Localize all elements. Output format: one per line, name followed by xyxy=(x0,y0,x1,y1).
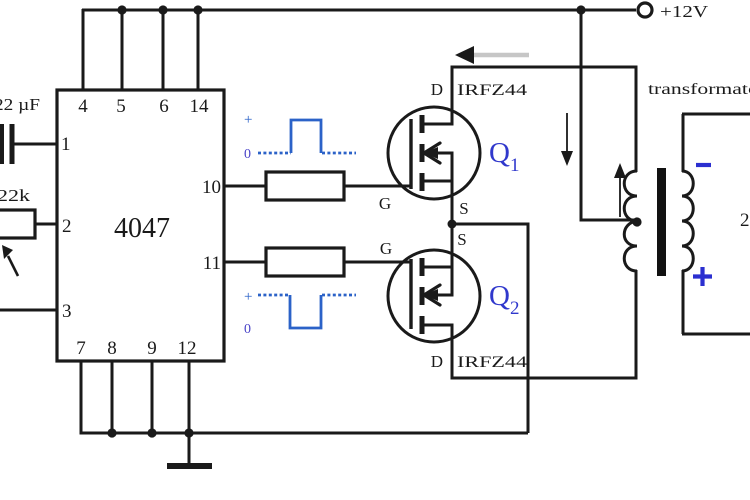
svg-text:3: 3 xyxy=(62,301,72,322)
svg-text:+: + xyxy=(244,112,252,128)
svg-text:0: 0 xyxy=(244,322,251,337)
wire pin 14 to rail xyxy=(197,10,200,90)
svg-text:4047: 4047 xyxy=(114,213,170,244)
wire ground bus xyxy=(81,432,528,434)
svg-text:4: 4 xyxy=(78,96,88,117)
wire pin 8 to ground bus xyxy=(111,361,114,433)
resistor R1 xyxy=(266,172,344,200)
wire pin 6 to rail xyxy=(162,10,165,90)
pin 1 label xyxy=(61,134,71,155)
wire R1 to gate Q1 xyxy=(344,185,411,188)
label + (waveform 1) xyxy=(244,112,252,128)
wire pin 10 to R1 xyxy=(224,185,266,188)
svg-text:11: 11 xyxy=(203,253,221,274)
pin 12 label xyxy=(178,338,197,359)
transistor Q1 IRFZ44 xyxy=(388,107,480,199)
label 0 (waveform 2) xyxy=(244,322,251,337)
svg-text:14: 14 xyxy=(190,96,210,117)
junction pin9/bus xyxy=(147,428,156,437)
label + (waveform 2) xyxy=(244,289,252,305)
label 0 (waveform 1) xyxy=(244,147,251,162)
waveform pulse high (pin 10) xyxy=(258,120,356,153)
label S (Q1) xyxy=(459,199,468,218)
wire pin 11 to R2 xyxy=(224,261,266,264)
svg-text:7: 7 xyxy=(76,338,86,359)
junction pin6/rail xyxy=(158,5,167,14)
svg-text:IRFZ44: IRFZ44 xyxy=(457,354,527,371)
label 4047 xyxy=(114,213,170,244)
junction pin5/rail xyxy=(117,5,126,14)
current arrow up (primary) xyxy=(614,163,626,217)
svg-text:S: S xyxy=(457,230,466,249)
label transformator xyxy=(648,81,750,98)
potentiometer arrow xyxy=(2,245,18,276)
transformer T1 primary winding xyxy=(624,171,637,271)
wire C1 to pin 1 xyxy=(14,143,57,146)
svg-text:2: 2 xyxy=(62,216,72,237)
label +12V xyxy=(660,2,709,21)
transistor Q2 IRFZ44 xyxy=(388,249,480,342)
label G (Q1) xyxy=(379,194,391,213)
wire R2 to gate Q2 xyxy=(344,261,411,264)
transformer T1 secondary winding xyxy=(682,114,693,334)
pin 2 label xyxy=(62,216,72,237)
wire pin 7 to ground bus xyxy=(80,361,83,433)
label IRFZ44 (Q2) xyxy=(457,354,527,371)
wire +12V to centre tap xyxy=(581,10,637,220)
svg-text:12: 12 xyxy=(178,338,197,359)
pin 5 label xyxy=(116,96,126,117)
wire pin 3 xyxy=(0,309,57,312)
resistor R2 xyxy=(266,248,344,276)
svg-text:9: 9 xyxy=(147,338,157,359)
pin 11 label xyxy=(203,253,221,274)
ground xyxy=(167,433,212,466)
svg-text:+: + xyxy=(244,289,252,305)
label G (Q2) xyxy=(380,239,392,258)
waveform pulse low (pin 11) xyxy=(258,295,356,328)
pin 8 label xyxy=(107,338,117,359)
svg-text:8: 8 xyxy=(107,338,117,359)
wire pin 12 to ground bus xyxy=(188,361,191,433)
wire pin 5 to rail xyxy=(121,10,124,90)
svg-text:6: 6 xyxy=(159,96,169,117)
wire pin 4 to rail xyxy=(82,9,85,90)
label IRFZ44 (Q1) xyxy=(457,82,527,99)
wire R3 to pin 2 xyxy=(35,223,57,226)
wire Q2 drain to transformer primary bottom xyxy=(452,270,636,378)
pin 4 label xyxy=(78,96,88,117)
label S (Q2) xyxy=(457,230,466,249)
svg-text:+12V: +12V xyxy=(660,2,709,21)
wire pin 9 to ground bus xyxy=(151,361,154,433)
pin 10 label xyxy=(202,177,221,198)
pin 6 label xyxy=(159,96,169,117)
terminal +12V xyxy=(638,3,652,17)
svg-text:S: S xyxy=(459,199,468,218)
svg-text:22 µF: 22 µF xyxy=(0,95,40,114)
junction centre tap xyxy=(632,217,641,226)
svg-text:10: 10 xyxy=(202,177,221,198)
svg-text:5: 5 xyxy=(116,96,126,117)
svg-text:1: 1 xyxy=(61,134,71,155)
pin 9 label xyxy=(147,338,157,359)
svg-text:IRFZ44: IRFZ44 xyxy=(457,82,527,99)
junction S node xyxy=(448,220,457,229)
wire Q2 source to S junction xyxy=(451,222,454,251)
svg-text:G: G xyxy=(380,239,392,258)
wire secondary top to load xyxy=(682,113,750,116)
svg-text:22k: 22k xyxy=(0,186,31,205)
junction pin8/bus xyxy=(107,428,116,437)
junction pin14/rail xyxy=(193,5,202,14)
junction +12V rail / centre-tap feed xyxy=(576,5,585,14)
label 22 uF xyxy=(0,95,40,114)
wire secondary bottom to load xyxy=(682,333,750,336)
pin 7 label xyxy=(76,338,86,359)
wire S node to ground bus xyxy=(452,224,528,433)
junction pin12/bus xyxy=(184,428,193,437)
label D (Q1) xyxy=(431,80,443,99)
wire Q1 source to S junction xyxy=(451,197,454,226)
current arrow (drain loop, pointing left) xyxy=(455,46,529,64)
resistor R3 22k xyxy=(0,210,35,238)
svg-text:220V: 220V xyxy=(740,210,750,231)
label D (Q2) xyxy=(431,352,443,371)
transformer core xyxy=(657,168,666,276)
current arrow down (centre-tap feed) xyxy=(561,113,573,166)
wire +12V top rail xyxy=(82,9,636,12)
pin 3 label xyxy=(62,301,72,322)
svg-text:0: 0 xyxy=(244,147,251,162)
label Q2 xyxy=(489,280,519,319)
label 22k xyxy=(0,186,31,205)
label minus (secondary) xyxy=(696,163,711,167)
svg-text:D: D xyxy=(431,80,443,99)
label Q1 xyxy=(489,137,519,176)
IC U1 4047 body xyxy=(57,90,224,361)
svg-text:transformator: transformator xyxy=(648,81,750,98)
capacitor C1 22uF xyxy=(2,124,12,164)
wire Q1 drain to transformer primary top xyxy=(452,67,636,172)
pin 14 label xyxy=(190,96,210,117)
label plus (secondary) xyxy=(693,267,712,286)
svg-text:G: G xyxy=(379,194,391,213)
label 220V xyxy=(740,210,750,231)
svg-text:D: D xyxy=(431,352,443,371)
